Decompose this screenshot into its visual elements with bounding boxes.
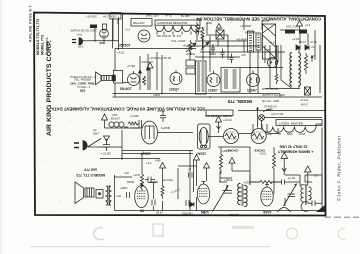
resistor R6 vertical [201, 27, 204, 42]
svg-text:CONVENTIONAL ALIGNMENT, SEE W-: CONVENTIONAL ALIGNMENT, SEE W-RCA-30B1, … [196, 17, 321, 22]
svg-text:12SA: 12SA [299, 133, 305, 136]
svg-text:+N MF: +N MF [157, 109, 165, 113]
svg-text:+6 CY: +6 CY [103, 15, 111, 19]
antenna ANT [102, 114, 108, 128]
loop coil L3 [109, 122, 114, 127]
candohm taps [157, 32, 199, 35]
page area wash [34, 13, 326, 216]
volume control labels [172, 18, 315, 58]
wire top left of candohm [123, 13, 210, 50]
svg-text:MODEL 770: MODEL 770 [227, 99, 252, 104]
AF tube V4 [170, 73, 182, 85]
svg-text:160 1450 30 25 470: 160 1450 30 25 470 [157, 34, 182, 38]
IF amp tube V5 [207, 74, 220, 87]
ghost bleed arc C [94, 228, 104, 240]
cap C11 [160, 111, 166, 122]
dropping resistor R2 [103, 24, 107, 30]
oscillator coil L2 winding b [298, 53, 300, 87]
svg-text:+N MΩ: +N MΩ [127, 64, 135, 68]
svg-text:+R 42: +R 42 [165, 14, 173, 18]
wires upper mid [162, 35, 230, 93]
align box note (upside down) [206, 110, 233, 116]
converter metal tube M1 [198, 124, 211, 149]
annotation rows lower right [262, 87, 285, 109]
svg-text:AIR KING PRODUCTS CORP.: AIR KING PRODUCTS CORP. [46, 40, 53, 136]
svg-text:+RES: +RES [209, 52, 216, 56]
svg-text:POL. CONT.: POL. CONT. [172, 39, 187, 43]
bias labels [117, 14, 190, 55]
svg-text:+N 30: +N 30 [310, 40, 318, 44]
svg-text:+4 F: +4 F [146, 161, 152, 165]
UPPER SCHEMATIC [70, 13, 322, 109]
frequency range note (upside down) [277, 145, 313, 154]
IF transformer T3 [221, 68, 240, 93]
candohm resistor R1 box [155, 20, 200, 25]
heater ballast box [276, 120, 322, 126]
first AF tube T10 [142, 121, 158, 144]
screen resistor R12 [273, 150, 276, 194]
svg-text:+4 99: +4 99 [156, 211, 163, 215]
if tube B2 [197, 184, 209, 204]
filter choke CH1 [224, 129, 239, 144]
diode D2 [305, 45, 309, 50]
grid wires upper right [203, 20, 320, 93]
svg-text:+4Ω: +4Ω [116, 194, 121, 198]
svg-text:+VRLE: +VRLE [224, 178, 233, 182]
cathode cap C20 [152, 183, 155, 211]
output tube V3 [128, 74, 140, 86]
svg-text:6+R5B: 6+R5B [161, 126, 170, 130]
svg-text:MODEL 773: MODEL 773 [41, 35, 45, 55]
output tube B1 [135, 186, 149, 208]
svg-text:Jul 1: Jul 1 [78, 45, 84, 49]
svg-text:+245: +245 [206, 21, 212, 25]
gang trimmer arrow [213, 186, 229, 212]
svg-text:+6.3: +6.3 [305, 23, 311, 27]
bottom cap C16 [308, 174, 322, 206]
heater tap labels [266, 133, 305, 136]
svg-text:B+ 98V: B+ 98V [181, 14, 190, 18]
svg-text:μo 3Ω: μo 3Ω [288, 176, 295, 180]
speaker SP1 cone [96, 72, 102, 85]
conv tube B3 [261, 187, 273, 206]
pilot lamp LP1 [259, 115, 265, 121]
grid resistor R10 [128, 122, 139, 125]
corner flag [316, 205, 325, 212]
svg-text:+DET AVC: +DET AVC [141, 60, 153, 64]
model note (upside down) [76, 168, 105, 178]
svg-text:+05: +05 [241, 53, 246, 57]
speaker SP2 cone [75, 182, 84, 204]
rf tube V7 [268, 58, 278, 68]
avc antenna mid [160, 163, 166, 212]
filter choke CH2 [251, 129, 266, 144]
svg-text:BALLAST: BALLAST [133, 21, 145, 25]
line bypass cap C12 [103, 139, 110, 151]
trimmer cap C13 [273, 180, 300, 185]
svg-text:22 ONLY 42 USE: 22 ONLY 42 USE [279, 145, 308, 149]
junction dots [161, 45, 251, 98]
model list header [36, 19, 49, 55]
diode D3 [190, 202, 195, 207]
svg-text:45 KC: 45 KC [301, 104, 308, 107]
hook loop [301, 202, 309, 212]
svg-text:12SA7: 12SA7 [196, 152, 206, 156]
svg-text:MODELS 771, 772: MODELS 771, 772 [76, 173, 105, 177]
svg-text:SWITCH ON VOL CONT: SWITCH ON VOL CONT [71, 30, 98, 33]
svg-text:and 00μ: and 00μ [163, 178, 173, 182]
svg-text:+WP: +WP [155, 159, 161, 163]
svg-text:+455 KC: +455 KC [231, 18, 241, 22]
grid resistor R8 [275, 74, 278, 84]
page edge dashes [325, 216, 359, 218]
coupling cap C17 [145, 177, 155, 183]
svg-text:+6V LT OR: +6V LT OR [271, 113, 284, 116]
svg-text:+30 MMF: +30 MMF [240, 24, 251, 28]
resistor R15 vertical [161, 184, 164, 199]
converter tube V6 [247, 74, 260, 87]
plate antenna [204, 163, 210, 182]
svg-text:μff: μff [315, 174, 318, 178]
line wire [89, 130, 194, 160]
svg-text:LOOP: LOOP [262, 19, 269, 23]
ghost bleed dash [232, 226, 254, 229]
align antenna [216, 116, 222, 133]
svg-text:LITZEN HEATER: LITZEN HEATER [279, 121, 304, 125]
output transformer T11 [106, 186, 108, 206]
lower wires [122, 147, 322, 211]
svg-text:CANDOHM RESISTOR: CANDOHM RESISTOR [157, 21, 187, 25]
svg-text:and 770: and 770 [84, 168, 97, 172]
svg-text:50L6: 50L6 [287, 133, 293, 136]
speaker SP1 text block [70, 76, 96, 93]
resistor R7 vertical [189, 40, 192, 55]
phono jack crossed box [216, 30, 224, 39]
coupling cap C10 [139, 120, 142, 128]
coupling wires with arrows [140, 52, 157, 90]
speaker housing [114, 71, 123, 84]
svg-text:+30 MFD: +30 MFD [149, 56, 160, 60]
svg-text:+N 121: +N 121 [300, 99, 309, 102]
misc labels lower mid [124, 159, 161, 176]
speaker SP1 voice coil [102, 75, 113, 80]
svg-text:+RB VT: +RB VT [222, 149, 232, 153]
tuning cap VC2 [284, 184, 297, 206]
heater winding W1 [262, 127, 316, 133]
svg-text:LAMP: LAMP [266, 109, 273, 112]
IF coil L4 [238, 183, 241, 204]
ant coil slug [285, 30, 295, 34]
cap C4 [230, 54, 234, 64]
osc trimmer can T5 [256, 33, 261, 50]
svg-text:DIAL CORD TRIM.: DIAL CORD TRIM. [71, 81, 96, 85]
svg-text:+N MΩ: +N MΩ [130, 114, 139, 118]
IF coil L5 [244, 185, 247, 206]
caps C14 C15 [127, 192, 190, 206]
AC plug P1 [83, 141, 87, 151]
scan edge shading left [0, 0, 2, 254]
trimmer pot box [305, 87, 311, 95]
antenna symbol top [217, 24, 222, 31]
svg-text:©John F. Rider, Publisher: ©John F. Rider, Publisher [336, 135, 342, 201]
antenna above osc coil [297, 21, 303, 30]
svg-text:+N MΩ: +N MΩ [183, 44, 191, 48]
scan speckle [45, 25, 311, 201]
filter block C1 [90, 25, 97, 29]
output stage frame [115, 49, 196, 97]
svg-text:μff 0Ω2: μff 0Ω2 [229, 213, 238, 217]
top connection row [127, 175, 322, 182]
svg-text:BCAST: BCAST [111, 117, 120, 121]
svg-text:+N Ω: +N Ω [77, 34, 83, 37]
antenna in set [147, 63, 153, 91]
line switch SW1 [88, 139, 101, 148]
loop antenna frame [263, 24, 276, 59]
osc coil L6 [301, 184, 304, 201]
svg-text:+10 Ω: +10 Ω [259, 152, 266, 156]
rectifier tube V2 [100, 29, 109, 38]
svg-text:+10 Ω2: +10 Ω2 [223, 118, 232, 122]
LOWER SCHEMATIC [51, 99, 325, 217]
svg-text:+.01 MF: +.01 MF [101, 152, 111, 156]
divider network boxes [186, 60, 195, 66]
svg-text:+1 2: +1 2 [125, 29, 131, 32]
AC plug P2 [79, 38, 83, 45]
osc section wires [265, 45, 300, 89]
ballast tube V1 [138, 30, 150, 42]
speaker SP1 magnet [112, 75, 116, 81]
svg-text:970: 970 [80, 89, 86, 93]
resistor R3 vertical [143, 76, 146, 85]
hook wire [278, 208, 291, 213]
svg-text:MODELS 770,771,772: MODELS 770,771,772 [36, 19, 40, 55]
padder labels [236, 24, 256, 42]
ghost circle right [287, 228, 298, 239]
cap C2 [211, 44, 215, 54]
border frame [34, 13, 326, 216]
svg-text:SW.T: SW.T [93, 132, 100, 136]
svg-text:BIAS 125V: BIAS 125V [146, 14, 159, 18]
osc trimmer can T4 [248, 31, 254, 52]
ghost bleed square [153, 224, 163, 236]
cap C3 [221, 49, 225, 59]
loop antenna label [197, 26, 205, 34]
speaker SP2 magnet [96, 190, 103, 199]
pot arrow [186, 43, 196, 52]
osc coil L7 [309, 187, 312, 200]
svg-text:12SK7: 12SK7 [208, 89, 218, 93]
svg-text:+99: +99 [196, 18, 201, 22]
bleeder resistor R4 [305, 55, 308, 74]
svg-text:AC: AC [93, 128, 97, 132]
osc section antenna [304, 166, 311, 185]
svg-text:OSC COIL: OSC COIL [286, 25, 299, 29]
svg-text:+4 Ω2: +4 Ω2 [117, 51, 125, 55]
svg-text:12SA7: 12SA7 [247, 89, 257, 93]
svg-text:+ SERVE ASSEMBLY: + SERVE ASSEMBLY [277, 150, 313, 154]
diode D1 [296, 45, 300, 50]
svg-text:STD.: STD. [112, 113, 118, 117]
svg-text:Q2 121 - 1145: Q2 121 - 1145 [262, 99, 279, 103]
svg-text:35Z5GT: 35Z5GT [119, 44, 131, 48]
svg-text:+24 VDC: +24 VDC [86, 15, 97, 19]
svg-text:60 CY AC-DC: 60 CY AC-DC [262, 87, 279, 91]
resistor R5 vertical [196, 22, 199, 37]
input wire [105, 127, 142, 128]
svg-text:+(d) 00Ω: +(d) 00Ω [182, 212, 193, 216]
grid resistor R14 vertical [141, 172, 144, 191]
ghost arc far right [338, 228, 345, 239]
speaker wires [115, 175, 161, 211]
avc antenna [229, 158, 235, 172]
oscillator coil L2 winding a [290, 53, 292, 87]
svg-text:+VSS: +VSS [243, 181, 250, 185]
svg-text:+MFD: +MFD [120, 186, 127, 190]
second line wire [142, 154, 232, 212]
supply wires [83, 17, 119, 50]
speaker SP2 voice coil [85, 188, 94, 197]
svg-text:AIRLINE PAGE 8-7: AIRLINE PAGE 8-7 [29, 5, 33, 42]
svg-text:μF: μF [309, 197, 312, 201]
svg-text:+10 P: +10 P [133, 173, 140, 177]
osc resistor R13 [250, 175, 273, 185]
svg-text:KEY: KEY [111, 15, 117, 19]
wire key to bus [113, 19, 119, 49]
svg-text:+CP: +CP [124, 171, 129, 175]
tuning cap VC3 [223, 186, 233, 193]
osc antenna [281, 153, 288, 176]
upper schematic bottom rule [238, 110, 325, 112]
svg-text:6SB: 6SB [100, 41, 106, 45]
plate resistor R11 [220, 152, 223, 174]
IF transformer T2 [196, 61, 207, 94]
svg-text:65: 65 [140, 209, 144, 213]
key box S1 [110, 13, 121, 20]
svg-text:50L6GT: 50L6GT [120, 87, 132, 91]
bus wires [113, 94, 323, 98]
cap C18 [189, 173, 193, 178]
screen antenna [194, 155, 200, 187]
svg-text:OUTPUT 121-1145: OUTPUT 121-1145 [262, 93, 285, 97]
jack triangle [104, 136, 110, 141]
candohm R1 winding [155, 25, 200, 31]
svg-text:12SQ7: 12SQ7 [169, 88, 179, 92]
svg-text:SEE RCA-ROLLINS VOLUME VII PAG: SEE RCA-ROLLINS VOLUME VII PAGE, CONVENT… [51, 107, 205, 112]
ghost bottom rule [30, 246, 270, 247]
